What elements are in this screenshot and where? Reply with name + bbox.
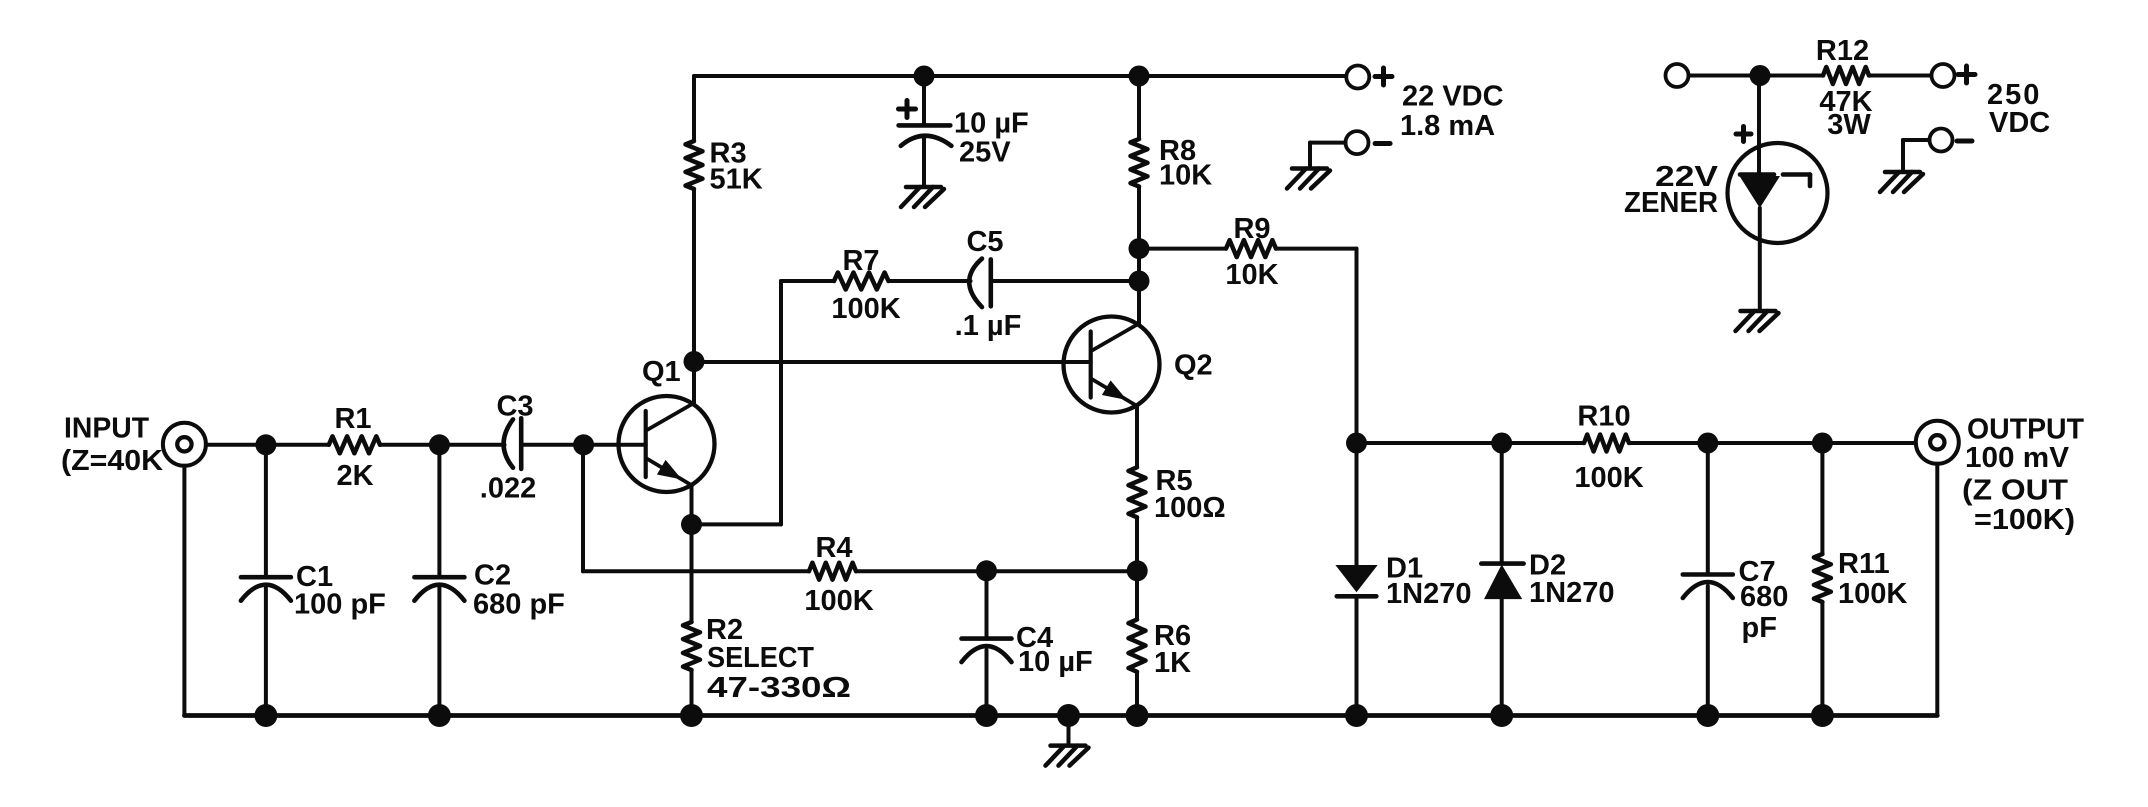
svg-text:100 mV: 100 mV [1965, 442, 2070, 474]
svg-text:1K: 1K [1154, 647, 1191, 679]
svg-text:R1: R1 [334, 403, 371, 435]
svg-text:100K: 100K [1838, 578, 1907, 610]
svg-text:R7: R7 [842, 245, 879, 277]
svg-text:1.8 mA: 1.8 mA [1400, 110, 1495, 142]
svg-text:22 VDC: 22 VDC [1402, 81, 1504, 113]
svg-text:C5: C5 [966, 226, 1003, 258]
svg-text:R12: R12 [1816, 35, 1869, 67]
svg-text:10 µF: 10 µF [954, 108, 1029, 140]
svg-text:100K: 100K [804, 585, 873, 617]
svg-text:Q1: Q1 [642, 356, 681, 388]
svg-text:25V: 25V [959, 137, 1011, 169]
svg-text:.022: .022 [480, 473, 536, 505]
svg-text:R11: R11 [1838, 548, 1890, 580]
svg-text:10 µF: 10 µF [1018, 646, 1093, 678]
svg-text:VDC: VDC [1989, 107, 2050, 139]
svg-text:C3: C3 [496, 391, 533, 423]
svg-text:47-330Ω: 47-330Ω [707, 672, 851, 704]
svg-text:(Z OUT: (Z OUT [1962, 475, 2068, 507]
svg-text:=100K): =100K) [1974, 504, 2075, 536]
svg-text:10K: 10K [1159, 160, 1212, 192]
svg-text:100K: 100K [1574, 462, 1643, 494]
svg-text:R4: R4 [815, 532, 852, 564]
svg-text:100K: 100K [831, 293, 900, 325]
svg-text:100 pF: 100 pF [294, 589, 386, 621]
svg-text:INPUT: INPUT [64, 413, 149, 445]
svg-text:pF: pF [1742, 612, 1777, 644]
svg-text:1N270: 1N270 [1386, 578, 1471, 610]
svg-text:100Ω: 100Ω [1154, 492, 1226, 524]
svg-text:(Z=40K: (Z=40K [61, 445, 163, 477]
svg-text:.1 µF: .1 µF [955, 310, 1022, 342]
svg-text:C2: C2 [474, 560, 511, 592]
svg-text:680 pF: 680 pF [473, 589, 565, 621]
svg-text:2K: 2K [336, 460, 373, 492]
svg-text:R10: R10 [1577, 401, 1630, 433]
svg-text:OUTPUT: OUTPUT [1967, 414, 2084, 446]
svg-text:3W: 3W [1827, 109, 1871, 141]
svg-text:51K: 51K [710, 164, 763, 196]
svg-text:680: 680 [1740, 581, 1788, 613]
svg-text:R9: R9 [1233, 213, 1270, 245]
svg-text:10K: 10K [1225, 259, 1278, 291]
svg-text:1N270: 1N270 [1529, 577, 1614, 609]
svg-text:Q2: Q2 [1174, 350, 1213, 382]
svg-text:SELECT: SELECT [707, 642, 814, 674]
svg-text:ZENER: ZENER [1624, 187, 1718, 219]
